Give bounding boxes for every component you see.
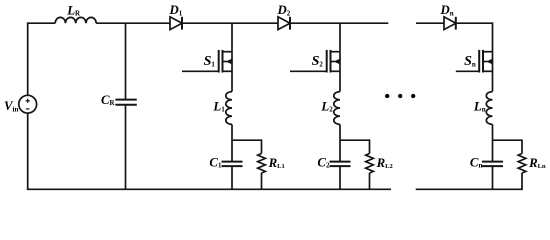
label L2: [320, 99, 333, 113]
wire top rail segment A: [27, 22, 55, 24]
label Dn: [440, 3, 454, 17]
capacitor CR: [115, 23, 136, 189]
wire L2 to node 2: [339, 124, 341, 161]
label CR: [101, 93, 116, 107]
label C1: [209, 155, 222, 169]
svg-text:Vin: Vin: [4, 99, 18, 113]
label RL2: [376, 156, 393, 170]
svg-text:Cn: Cn: [470, 155, 483, 169]
inductor L1: [226, 92, 232, 125]
wire RLn to bottom rail: [521, 173, 523, 189]
wire S2 source to L2: [339, 52, 341, 92]
wire L1 to node 1: [231, 124, 233, 161]
label Sn: [464, 54, 476, 69]
diode D2: [278, 17, 290, 30]
svg-text:RL2: RL2: [376, 156, 393, 170]
svg-text:Ln: Ln: [473, 99, 486, 113]
wire drain of S1 from top rail: [231, 23, 233, 52]
wire top rail after Dn (corner to drain): [457, 23, 494, 52]
label RLn: [528, 156, 546, 170]
diode D1: [170, 17, 182, 30]
wire gate stub of S1: [182, 70, 219, 72]
wire top rail right segment (before Dn): [416, 22, 444, 24]
svg-text:L1: L1: [212, 99, 225, 113]
wire node n to RLn: [493, 140, 523, 153]
svg-text:RLn: RLn: [528, 156, 546, 170]
inductor LR: [55, 17, 96, 23]
capacitor C1: [222, 162, 243, 167]
svg-text:S2: S2: [312, 54, 324, 69]
label D2: [277, 3, 291, 17]
svg-text:RL1: RL1: [268, 156, 285, 170]
svg-text:Dn: Dn: [440, 3, 454, 17]
capacitor C2: [330, 162, 351, 167]
wire node 2 to RL2: [340, 140, 370, 153]
wire gate stub of Sn: [456, 70, 479, 72]
label RL1: [268, 156, 285, 170]
resistor RLn: [518, 154, 526, 174]
svg-text:L2: L2: [320, 99, 333, 113]
transistor Sn: [479, 50, 493, 73]
svg-text:C2: C2: [317, 155, 330, 169]
wire S1 source to L1: [231, 52, 233, 92]
diode Dn: [444, 17, 456, 30]
inductor Ln: [486, 92, 492, 125]
wire bottom rail left: [27, 188, 391, 190]
wire top rail after D1: [183, 22, 278, 24]
wire C2 to bottom rail: [339, 167, 341, 190]
label L1: [212, 99, 225, 113]
label Vin: [4, 99, 18, 113]
wire left vertical (Vin branch): [27, 23, 29, 189]
wire C1 to bottom rail: [231, 167, 233, 190]
label D1: [169, 3, 183, 17]
wire top rail segment B (LR to D1): [96, 22, 170, 24]
wire Sn source to Ln: [492, 52, 494, 92]
wire Cn to bottom rail: [492, 167, 494, 190]
wire top rail after D2: [291, 22, 388, 24]
svg-text:S1: S1: [204, 54, 216, 69]
label S2: [312, 54, 324, 69]
label C2: [317, 155, 330, 169]
wire Ln to node n: [492, 124, 494, 161]
resistor RL2: [366, 154, 374, 174]
wire drain of S2 from top rail: [339, 23, 341, 52]
label Cn: [470, 155, 483, 169]
svg-text:Sn: Sn: [464, 54, 476, 69]
wire node 1 to RL1: [232, 140, 262, 153]
wire bottom rail right: [416, 188, 523, 190]
label LR: [66, 3, 81, 17]
svg-text:LR: LR: [66, 3, 81, 17]
svg-text:CR: CR: [101, 93, 116, 107]
wire gate stub of S2: [290, 70, 327, 72]
capacitor Cn: [482, 162, 503, 167]
ellipsis dots (repeated stages): [385, 94, 415, 98]
label Ln: [473, 99, 486, 113]
resistor RL1: [258, 154, 266, 174]
transistor S2: [327, 50, 341, 73]
transistor S1: [219, 50, 233, 73]
svg-text:C1: C1: [209, 155, 222, 169]
wire RL2 to bottom rail: [369, 173, 371, 189]
svg-text:D1: D1: [169, 3, 183, 17]
svg-text:D2: D2: [277, 3, 291, 17]
wire RL1 to bottom rail: [261, 173, 263, 189]
label S1: [204, 54, 216, 69]
inductor L2: [334, 92, 340, 125]
voltage source Vin: [19, 95, 37, 113]
